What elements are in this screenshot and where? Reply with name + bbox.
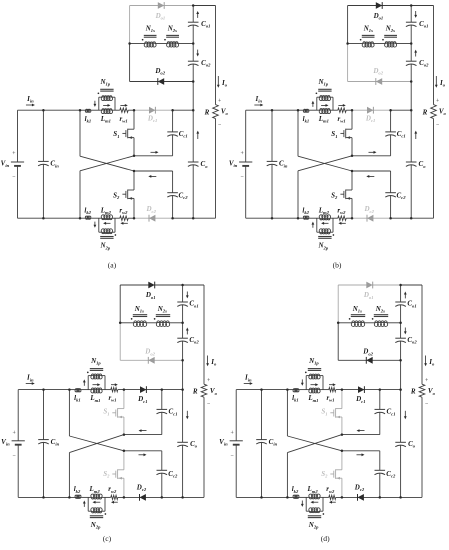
wire loop left upper (b) — [347, 6, 349, 44]
capacitor C_o2 (d) — [395, 336, 417, 345]
wire cross diagonal A (a) — [79, 110, 81, 156]
node S_2 source (b) — [351, 217, 354, 220]
svg-text:−: − — [207, 401, 210, 407]
wire input top (c) — [18, 389, 69, 391]
arrow C_o1 (b) — [415, 11, 417, 16]
node C_in bottom (d) — [260, 496, 263, 499]
node S_2 source (a) — [133, 217, 136, 220]
arrow clamp 2 (a) — [151, 175, 157, 177]
wire phase-2 to output (a) — [173, 217, 216, 219]
svg-text:+: + — [218, 99, 221, 105]
resistor r_w1 (b) — [338, 108, 347, 124]
wire phase-2 line (c) — [81, 496, 92, 498]
svg-text:+: + — [207, 378, 210, 384]
arrow current r_w2 (d) — [331, 501, 335, 503]
svg-text:−: − — [218, 122, 221, 128]
node C_c2 bottom (a) — [171, 217, 174, 220]
transistor S_1 inactive (c) — [103, 390, 124, 435]
node S_1 drain (b) — [351, 109, 354, 112]
wire cross diagonal B (c) — [69, 435, 124, 453]
arrow output current I_o (c) — [206, 356, 217, 367]
wire phase-2 line (a) — [91, 217, 102, 219]
diode D_o1 (d) — [363, 282, 374, 300]
node C_c1 top (a) — [171, 109, 174, 112]
arrow C_o2 (a) — [197, 50, 199, 55]
diode D_c1 clamp gray (a) — [147, 107, 157, 123]
wire phase-1 line (b) — [298, 109, 304, 111]
svg-text:R: R — [204, 109, 210, 117]
arrow winding stub 1 (c) — [83, 382, 85, 386]
node rail top (c) — [181, 284, 184, 287]
wire input top (b) — [246, 109, 298, 111]
svg-text:R: R — [422, 109, 428, 117]
wire load rail (c) — [203, 285, 205, 384]
node C_c1 top (b) — [389, 109, 392, 112]
arrow C_o2 (d) — [404, 328, 406, 333]
wire secondary winding line (d) — [338, 322, 352, 324]
arrow current L_m2 (b) — [324, 222, 329, 224]
node C_in bottom (c) — [42, 496, 45, 499]
transistor S_2 inactive (c) — [103, 451, 124, 498]
node C_c2 bottom (d) — [379, 496, 382, 499]
resistor R load (d) — [410, 384, 425, 397]
node C_c1 top (c) — [161, 388, 164, 391]
voltage source V_in (b) — [229, 110, 252, 218]
winding N_2s (a) — [164, 25, 179, 48]
node phase-2 input (b) — [297, 217, 300, 220]
wire loop left upper (a) — [129, 6, 131, 44]
arrow current L_m2 (a) — [106, 222, 111, 224]
input current arrow I_in (d) — [244, 374, 253, 385]
capacitor C_in (b) — [267, 110, 288, 218]
wire secondary winding line (a) — [130, 43, 145, 45]
arrow C_o1 (a) — [197, 13, 199, 18]
capacitor C_o2 (a) — [188, 59, 211, 68]
wire loop left lower (b) — [347, 44, 349, 82]
diode D_c2 clamp (d) — [354, 483, 365, 500]
diode D_c2 clamp (c) — [136, 483, 147, 500]
winding N_2p (c) — [88, 497, 106, 529]
arrow winding stub 2 (d) — [301, 501, 303, 505]
node S_1 source (d) — [341, 433, 344, 436]
arrow current L_m1 (c) — [93, 384, 98, 386]
wire loop left upper (c) — [119, 285, 121, 323]
svg-text:(d): (d) — [321, 534, 330, 543]
output voltage V_o (b) — [436, 99, 447, 128]
wire secondary winding line (b) — [348, 43, 363, 45]
resistor r_w1 (d) — [326, 388, 335, 403]
node S_1 source (b) — [351, 155, 354, 158]
diode D_o2 (c) — [144, 348, 155, 364]
svg-text:+: + — [436, 99, 439, 105]
wire phase-1 line (a) — [80, 109, 86, 111]
wire load rail (b) — [433, 6, 435, 105]
svg-text:(a): (a) — [108, 260, 117, 269]
wire D_o2 branch (b) — [348, 81, 412, 83]
wire D_o2 branch (c) — [120, 359, 182, 361]
arrow output current I_o (b) — [435, 76, 446, 88]
node S_2 source (c) — [123, 496, 126, 499]
resistor R load (b) — [422, 105, 437, 119]
node secondary right (a) — [192, 42, 195, 45]
node phase-1 input (c) — [68, 388, 71, 391]
arrow current L_m1 (b) — [321, 104, 326, 106]
voltage source V_in (c) — [1, 390, 25, 498]
node S_2 drain (a) — [133, 170, 136, 173]
diode D_c1 clamp gray (b) — [365, 107, 375, 123]
svg-text:(b): (b) — [333, 260, 342, 269]
output voltage V_o (c) — [207, 378, 218, 407]
wire clamp line gray (a) — [134, 109, 173, 111]
transistor S_1 (b) — [331, 110, 352, 156]
arrow current L_m2 (c) — [95, 501, 100, 503]
inductor l_k2 (c) — [74, 485, 81, 498]
node D_o2 node (c) — [181, 359, 184, 362]
diode D_o1 (b) — [373, 2, 384, 21]
svg-text:−: − — [240, 174, 243, 180]
node phase-2 input (d) — [286, 496, 289, 499]
node rail top (d) — [399, 284, 402, 287]
node phase-2 input (c) — [68, 496, 71, 499]
node secondary right (b) — [410, 42, 413, 45]
wire loop left upper (d) — [337, 285, 339, 323]
capacitor C_c1 (a) — [134, 110, 188, 156]
capacitor C_in (c) — [38, 390, 59, 498]
wire phase-2 clamp gray (a) — [134, 217, 173, 219]
node phase-1 input (d) — [286, 388, 289, 391]
node S_2 drain (b) — [351, 170, 354, 173]
resistor r_w2 (a) — [119, 206, 128, 220]
svg-text:+: + — [12, 151, 15, 157]
winding N_2s (d) — [372, 305, 388, 327]
winding N_1s (d) — [349, 305, 365, 327]
node C_c2 bottom (c) — [161, 496, 164, 499]
arrow clamp 2 (d) — [357, 454, 363, 456]
svg-text:(c): (c) — [103, 534, 112, 543]
capacitor C_o1 (d) — [395, 300, 416, 309]
node secondary right (d) — [399, 322, 402, 325]
transistor S_1 inactive (d) — [321, 390, 342, 435]
node C_in bottom (a) — [42, 217, 45, 220]
diode D_o2 (a) — [154, 67, 165, 85]
wire load rail (a) — [215, 6, 217, 105]
node rail bottom (a) — [192, 217, 195, 220]
capacitor C_c2 (c) — [124, 451, 178, 498]
arrow clamp 2 (c) — [139, 454, 145, 456]
capacitor C_o1 (b) — [406, 20, 429, 29]
node S_1 source (a) — [133, 155, 136, 158]
node phase-1 input (a) — [79, 109, 82, 112]
diode D_c2 clamp gray (b) — [363, 205, 374, 222]
node C_c1 top (d) — [379, 388, 382, 391]
node rail mid (c) — [181, 388, 184, 391]
diode D_c2 clamp gray (a) — [145, 205, 156, 222]
wire cross diagonal A (c) — [68, 390, 70, 436]
wire phase-1 line (c) — [69, 389, 75, 391]
voltage source V_in (a) — [1, 110, 24, 218]
wire clamp line gray (b) — [352, 109, 391, 111]
winding N_2p (d) — [306, 497, 324, 529]
input current arrow I_in (b) — [254, 95, 263, 106]
node D_o2 node (d) — [399, 359, 402, 362]
arrow current r_w1 (b) — [338, 104, 343, 106]
arrow clamp 1 (a) — [151, 151, 157, 153]
output voltage V_o (a) — [218, 99, 229, 128]
inductor L_m1 magnetizing (a) — [100, 109, 113, 124]
node S_1 drain (a) — [133, 109, 136, 112]
arrow current L_m2 (d) — [313, 501, 318, 503]
inductor L_m1 (c) — [89, 388, 102, 403]
arrow output current I_o (a) — [217, 76, 228, 88]
node secondary right (c) — [181, 322, 184, 325]
resistor r_w1 (a) — [120, 108, 129, 124]
svg-text:−: − — [436, 122, 439, 128]
arrow winding stub 1 (b) — [312, 103, 314, 107]
wire phase-1 line (d) — [287, 389, 293, 391]
wire cross diagonal A (b) — [297, 110, 299, 156]
wire top loop (b) — [348, 5, 412, 7]
node C_in top (b) — [271, 109, 274, 112]
inductor l_k2 (a) — [84, 206, 91, 219]
arrow clamp 1 (d) — [359, 430, 365, 432]
node rail mid (d) — [399, 388, 402, 391]
wire input bottom (d) — [236, 496, 293, 498]
capacitor C_o2 (b) — [406, 59, 429, 68]
capacitor C_c1 (b) — [352, 110, 406, 156]
wire input top (d) — [236, 389, 287, 391]
arrow current r_w2 (b) — [341, 222, 346, 224]
arrow clamp 1 (c) — [141, 430, 147, 432]
node C_in top (d) — [260, 388, 263, 391]
capacitor C_in (d) — [256, 390, 277, 498]
node S_1 drain (d) — [341, 388, 344, 391]
wire output C rail (c) — [182, 285, 184, 302]
diode D_o1 (c) — [145, 282, 156, 300]
resistor r_w1 (c) — [108, 388, 117, 403]
node rail mid (b) — [410, 109, 413, 112]
voltage source V_in (d) — [219, 390, 243, 498]
capacitor C_c1 (c) — [124, 390, 178, 435]
svg-text:R: R — [192, 387, 198, 395]
arrow C_o2 (b) — [415, 52, 417, 57]
resistor r_w2 (c) — [108, 485, 118, 499]
node S_2 drain (d) — [341, 450, 344, 453]
wire load rail (d) — [421, 285, 423, 384]
node secondary left (b) — [346, 42, 349, 45]
wire output C rail (d) — [400, 285, 402, 302]
arrow current r_w2 (a) — [123, 222, 128, 224]
winding N_1p (a) — [98, 78, 115, 110]
inductor l_k1 (d) — [292, 388, 299, 402]
arrow current r_w2 (c) — [113, 501, 117, 503]
input current arrow I_in (c) — [26, 374, 35, 385]
arrow current L_m1 (a) — [103, 104, 108, 106]
arrow current r_w1 (d) — [329, 384, 333, 386]
winding N_1s (a) — [142, 25, 157, 48]
node rail mid (a) — [192, 109, 195, 112]
svg-text:+: + — [240, 151, 243, 157]
node rail top (a) — [192, 4, 195, 7]
node secondary left (d) — [337, 322, 340, 325]
transistor S_2 inactive (d) — [321, 451, 342, 498]
arrow clamp 1 (b) — [369, 151, 375, 153]
arrow current L_m1 (d) — [311, 384, 316, 386]
diode D_o2 (d) — [362, 348, 373, 364]
node rail bottom (c) — [181, 496, 184, 499]
wire input bottom (c) — [18, 496, 75, 498]
winding N_2p (a) — [99, 218, 116, 250]
inductor L_m1 magnetizing (b) — [318, 109, 331, 124]
svg-text:+: + — [13, 431, 16, 437]
wire phase-2 line (b) — [309, 217, 320, 219]
wire secondary winding line (c) — [120, 322, 134, 324]
svg-text:−: − — [231, 453, 234, 459]
subfigure (a) — [1, 2, 229, 269]
inductor l_k2 (b) — [302, 206, 309, 219]
wire phase-2 clamp gray (b) — [352, 217, 391, 219]
wire input top (a) — [18, 109, 81, 111]
arrow C_o (c) — [186, 411, 188, 417]
arrow winding stub 1 (a) — [94, 101, 96, 105]
winding N_1p (d) — [305, 357, 323, 390]
capacitor C_in (a) — [38, 110, 59, 218]
diode D_c1 clamp (c) — [137, 386, 147, 404]
node S_1 source (c) — [123, 433, 126, 436]
wire top loop (d) — [338, 284, 400, 286]
arrow C_o1 (d) — [404, 294, 406, 299]
winding N_1p (b) — [316, 78, 333, 110]
resistor r_w2 (d) — [326, 485, 336, 499]
wire cross diagonal B (b) — [298, 156, 352, 171]
arrow C_o (d) — [404, 411, 406, 417]
inductor L_m2 (d) — [307, 485, 321, 499]
wire cross diagonal B (a) — [80, 156, 134, 171]
node C_c2 bottom (b) — [389, 217, 392, 220]
winding N_1s (c) — [131, 305, 147, 327]
node C_in top (a) — [42, 109, 45, 112]
arrow winding stub 2 (b) — [312, 224, 314, 228]
capacitor C_o2 (c) — [177, 336, 199, 345]
arrow clamp 2 (b) — [369, 175, 375, 177]
node S_1 drain (c) — [123, 388, 126, 391]
arrow C_o1 (c) — [186, 292, 188, 297]
wire phase-1 to rail (b) — [391, 109, 412, 111]
capacitor C_o1 (a) — [188, 20, 211, 29]
capacitor C_o (a) — [188, 160, 208, 169]
capacitor C_o (d) — [395, 440, 415, 449]
arrow output current I_o (d) — [424, 356, 435, 367]
svg-text:R: R — [410, 387, 416, 395]
input current arrow I_in (a) — [26, 95, 35, 106]
wire top loop (a) — [130, 5, 194, 7]
diode D_o2 (b) — [372, 67, 383, 85]
wire phase-2 line (d) — [299, 496, 310, 498]
inductor l_k1 (b) — [303, 109, 310, 123]
resistor R load (a) — [204, 105, 219, 119]
arrow current r_w1 (a) — [120, 104, 125, 106]
resistor r_w2 (b) — [337, 206, 346, 220]
node phase-1 input (b) — [297, 109, 300, 112]
inductor l_k1 (c) — [74, 388, 81, 402]
capacitor C_c1 (d) — [342, 390, 396, 435]
inductor L_m1 (d) — [307, 388, 320, 403]
winding N_2s (b) — [382, 25, 397, 48]
node secondary left (c) — [119, 322, 122, 325]
node phase-2 input (a) — [79, 217, 82, 220]
wire cross diagonal B (d) — [287, 435, 342, 453]
capacitor C_c2 (a) — [134, 171, 188, 218]
subfigure (c) — [1, 282, 217, 543]
wire cross diagonal A (d) — [286, 390, 288, 436]
wire input bottom (a) — [18, 217, 86, 219]
diode D_o1 (a) — [155, 2, 166, 21]
inductor l_k1 (a) — [85, 109, 92, 123]
node D_o2 node (a) — [192, 80, 195, 83]
wire output C rail (a) — [192, 6, 194, 23]
winding N_1s (b) — [360, 25, 375, 48]
node S_2 source (d) — [341, 496, 344, 499]
wire top loop (c) — [120, 284, 182, 286]
inductor l_k2 (d) — [292, 485, 299, 498]
wire loop left lower (c) — [119, 323, 121, 361]
svg-text:+: + — [425, 378, 428, 384]
winding N_2p (b) — [317, 218, 334, 250]
inductor L_m2 (a) — [100, 206, 113, 219]
svg-text:−: − — [13, 453, 16, 459]
inductor L_m2 (b) — [318, 206, 331, 220]
svg-text:−: − — [425, 401, 428, 407]
arrow C_o2 (c) — [186, 330, 188, 335]
resistor R load (c) — [192, 384, 207, 397]
capacitor C_c2 (d) — [342, 451, 396, 498]
inductor L_m2 (c) — [89, 485, 103, 499]
wire loop left lower (a) — [129, 44, 131, 82]
transistor S_1 (a) — [113, 110, 134, 156]
subfigure (d) — [219, 282, 435, 543]
capacitor C_c2 (b) — [352, 171, 406, 218]
wire D_o2 branch (d) — [338, 359, 400, 361]
node rail top (b) — [410, 4, 413, 7]
wire phase-1 to rail (a) — [173, 109, 194, 111]
wire input bottom (b) — [246, 217, 304, 219]
winding N_1p (c) — [87, 357, 105, 390]
svg-text:+: + — [231, 431, 234, 437]
winding N_2s (c) — [154, 305, 170, 327]
node S_2 drain (c) — [123, 450, 126, 453]
node D_o2 node (b) — [410, 80, 413, 83]
arrow winding stub 1 (d) — [301, 379, 303, 383]
node secondary left (a) — [128, 42, 131, 45]
arrow current r_w1 (c) — [111, 384, 115, 386]
diode D_c1 clamp (d) — [355, 386, 365, 404]
node rail bottom (d) — [399, 496, 402, 499]
node C_in bottom (b) — [271, 217, 274, 220]
arrow C_o (a) — [197, 133, 199, 139]
node C_in top (c) — [42, 388, 45, 391]
transistor S_2 (a) — [113, 171, 134, 218]
wire output C rail (b) — [410, 6, 412, 23]
node rail bottom (b) — [410, 217, 413, 220]
arrow winding stub 2 (c) — [83, 503, 85, 507]
arrow winding stub 2 (a) — [94, 222, 96, 226]
svg-text:−: − — [12, 174, 15, 180]
capacitor C_o (c) — [177, 440, 197, 449]
subfigure (b) — [229, 2, 447, 269]
wire phase-2 to output (b) — [391, 217, 434, 219]
capacitor C_o1 (c) — [177, 300, 198, 309]
wire loop left lower (d) — [337, 323, 339, 361]
wire D_o2 branch (a) — [130, 81, 194, 83]
